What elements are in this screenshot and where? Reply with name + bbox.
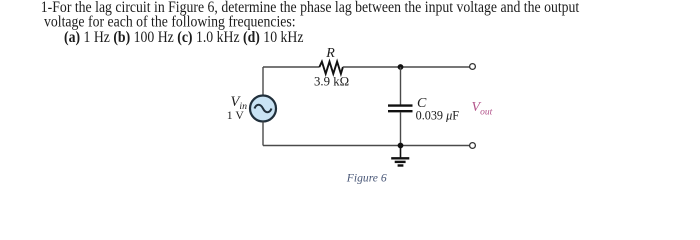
wire: bottom horizontal — [263, 145, 470, 147]
svg-text:Figure 6: Figure 6 — [346, 171, 387, 184]
svg-text:voltage for each of the follow: voltage for each of the following freque… — [44, 14, 296, 31]
wire: left vertical upper — [262, 67, 264, 96]
ground bars — [391, 157, 409, 159]
svg-text:(a) 1 Hz (b) 100 Hz (c) 1.0 kH: (a) 1 Hz (b) 100 Hz (c) 1.0 kHz (d) 10 k… — [64, 29, 304, 46]
wire: left vertical lower — [262, 122, 264, 146]
node junction dot (top) — [398, 64, 404, 70]
svg-text:1 V: 1 V — [227, 109, 245, 122]
node junction dot (bottom) — [398, 143, 404, 149]
source Vin circle — [250, 96, 276, 122]
wire: top horizontal left segment — [263, 66, 320, 68]
svg-text:Vout: Vout — [472, 100, 493, 117]
wire: capacitor branch vertical lower — [400, 112, 402, 145]
open terminal circle (top right) — [470, 64, 476, 70]
capacitor C plates — [388, 104, 413, 106]
wire: top horizontal right segment — [343, 66, 470, 68]
ground stub — [400, 146, 402, 158]
sine wave in source — [255, 105, 272, 113]
svg-text:3.9 kΩ: 3.9 kΩ — [314, 75, 349, 89]
svg-text:0.039 μF: 0.039 μF — [416, 109, 460, 123]
open terminal circle (bottom right) — [470, 143, 476, 149]
resistor R — [319, 62, 343, 74]
svg-text:R: R — [325, 46, 335, 61]
wire: capacitor branch vertical upper — [400, 67, 402, 105]
